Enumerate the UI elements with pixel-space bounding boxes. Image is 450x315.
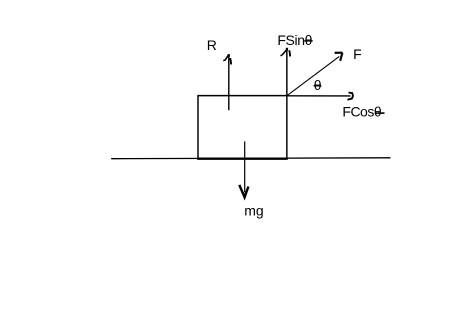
svg-text:FSinθ: FSinθ	[277, 32, 312, 48]
svg-text:R: R	[207, 37, 217, 53]
svg-text:mg: mg	[244, 203, 263, 219]
svg-text:θ: θ	[314, 77, 322, 93]
svg-text:F: F	[353, 46, 362, 62]
svg-text:FCosθ: FCosθ	[342, 104, 381, 120]
